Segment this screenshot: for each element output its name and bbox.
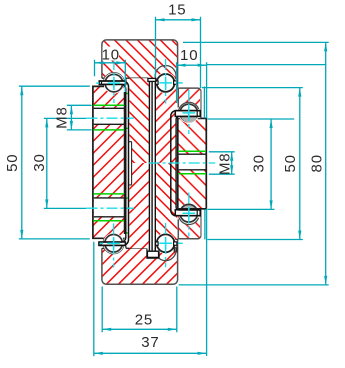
dim 30 left [44, 118, 87, 208]
gray hidden dome cap above plate edge [181, 204, 196, 208]
right top block dome clearance [178, 103, 199, 124]
bar end divider [196, 111, 198, 117]
inner rail sheet outer line [171, 111, 200, 216]
bar end divider [101, 81, 103, 84]
centerline center ball column [165, 59, 167, 104]
column right web hatch lower [156, 163, 177, 239]
centerline right hole [149, 162, 216, 164]
middle rail sheet line 2 [151, 81, 153, 251]
left clip [156, 81, 159, 84]
equator dash left of top bar [96, 82, 99, 84]
left ball groove arc [104, 73, 125, 94]
crosshair top right dome [183, 107, 196, 120]
top left ball [105, 74, 123, 92]
top left retainer bar [99, 81, 126, 84]
svg-text:30: 30 [250, 154, 267, 172]
left plate bottom ball notch clearance [103, 233, 124, 254]
groove clearance top center ball [155, 73, 176, 94]
arrows dim 37 [94, 352, 103, 355]
thread tick marks in rail channel [126, 94, 128, 233]
left ball groove clearance [104, 73, 125, 94]
right plate thread lines M8 [178, 151, 206, 174]
text knockout behind left 10 [103, 47, 120, 61]
arrows dim M8 left [70, 105, 73, 114]
dim M8 left [67, 105, 92, 130]
right top block outline [178, 88, 201, 118]
arrows dim 50 left [20, 86, 23, 95]
middle rail bottom foot [147, 251, 158, 257]
white clearance under hooks [148, 81, 156, 89]
bottom left ball group (mirror) [99, 235, 126, 253]
equator dash right of top center ball [178, 82, 183, 84]
left plate hole 2 bore [94, 199, 124, 217]
dim 50 right [202, 88, 303, 240]
arrows dim 80 [324, 42, 327, 51]
svg-text:25: 25 [135, 312, 153, 329]
column right edge stubs below bottom clip [174, 246, 177, 252]
column left web hatch lower [129, 163, 148, 248]
top center ball [157, 74, 175, 92]
svg-text:15: 15 [168, 2, 186, 19]
column right web white gap near plate [176, 110, 178, 214]
arrows dim 10 right [177, 64, 186, 67]
hole 2 edge lines [94, 198, 124, 217]
bottom block outline [102, 239, 178, 284]
dim 25 [102, 287, 177, 333]
centerline left hole 1 [87, 117, 134, 119]
equator dash right of bottom center ball [178, 242, 183, 244]
white notch for middle rail foot [147, 248, 159, 258]
bottom center ball group (mirror) [156, 234, 177, 252]
svg-text:10: 10 [180, 47, 198, 64]
crosshair bottom right dome [183, 207, 196, 220]
centerline left ball column [113, 59, 115, 103]
left plate hatch [93, 86, 125, 238]
bottom right dome group (mirror) [175, 204, 200, 222]
bottom block tongue hatch [156, 239, 178, 248]
svg-text:50: 50 [4, 154, 21, 172]
svg-text:M8: M8 [217, 153, 234, 175]
dim 50 left [19, 86, 90, 239]
arrows dim 15 [156, 18, 165, 21]
left ball groove arc [103, 233, 124, 254]
outer rail sheet wall outer line [99, 81, 129, 245]
plate bottom edge over dome [178, 208, 207, 210]
dim 10 right line [177, 62, 326, 356]
top block body hatch [102, 40, 178, 88]
svg-text:50: 50 [282, 154, 299, 172]
middle rail sheet line 1 [148, 81, 150, 251]
right bottom block (mirror) [178, 203, 202, 238]
top block step edges [102, 78, 148, 81]
gray thick right edge of block [200, 91, 202, 111]
center ball groove clearance [155, 73, 176, 94]
white clearance under bar [105, 81, 126, 90]
right plate hatch [178, 118, 207, 208]
left plate top ball notch clearance [104, 73, 125, 94]
short extension stubs beside right plate [203, 87, 206, 240]
right plate outline [178, 118, 207, 208]
column left notch jogs [129, 142, 132, 185]
centerline right dome column [188, 90, 190, 134]
dim 37 [94, 242, 207, 356]
arrows dim 30 left [45, 118, 48, 127]
svg-text:37: 37 [141, 334, 159, 351]
centerline right dome column bottom [188, 193, 190, 237]
dim 10 left line [95, 60, 126, 92]
right plate top dome clearance [178, 103, 199, 124]
inner rail sheet inner line [176, 116, 200, 210]
centerline left ball column bottom [113, 224, 115, 268]
white clearance left of ball [99, 78, 105, 92]
right clip [174, 81, 177, 84]
dim 80 [179, 42, 329, 285]
dome cap arc [181, 204, 196, 208]
arrows dim 10 left [95, 61, 104, 64]
dim 15 line [156, 17, 201, 88]
top right retainer bar [175, 111, 200, 117]
arrows dim 30 right [270, 119, 273, 128]
equator dash left of bottom bar [100, 242, 103, 244]
left ball groove clearance [103, 233, 124, 254]
center ball groove clearance [155, 233, 176, 254]
right top block hatch [178, 88, 201, 118]
foot notch outline [147, 248, 159, 258]
dome groove arc [179, 102, 199, 109]
gray segment below bar [181, 117, 197, 123]
crosshair top center ball [159, 77, 172, 90]
svg-text:30: 30 [31, 153, 48, 171]
arrows dim M8 right [230, 152, 233, 161]
svg-text:M8: M8 [54, 106, 71, 128]
dim M8 right [209, 152, 235, 174]
center ball groove arc [155, 247, 176, 261]
left plate outline [93, 86, 125, 238]
crosshair bottom left ball [107, 237, 120, 250]
left plate hole 1 bore [94, 109, 124, 124]
top block outline [102, 40, 178, 88]
middle rail top hook [148, 78, 156, 81]
column left notch white [129, 142, 131, 185]
hole 2 thread lines M8 [93, 194, 124, 221]
arrows dim 50 right [298, 88, 301, 97]
right plate hole edges [179, 154, 206, 170]
svg-text:80: 80 [309, 154, 326, 172]
middle rail sheet line 3 [154, 81, 156, 251]
center ball groove arc [155, 66, 176, 80]
white clearance over outer rail wall [126, 78, 148, 89]
column right web hatch upper [156, 87, 177, 163]
bottom block step edges [102, 239, 178, 248]
groove clearance bottom center ball [155, 233, 176, 254]
bottom block body hatch [102, 248, 178, 284]
svg-text:10: 10 [102, 47, 120, 64]
top right ball [180, 104, 198, 122]
dim 30 right [207, 119, 294, 209]
outer rail sheet wall inner line [99, 84, 126, 242]
arrows dim 25 [102, 328, 111, 331]
right plate hole bore [179, 154, 206, 170]
crosshair bottom center ball [159, 237, 172, 250]
hole 1 edge lines [94, 108, 124, 124]
column left web hatch upper [129, 78, 148, 163]
hole 1 thread lines M8 [93, 105, 124, 130]
crosshair top left ball [108, 77, 121, 90]
centerline left hole 2 [87, 207, 134, 209]
centerline center ball column bottom [165, 223, 167, 267]
